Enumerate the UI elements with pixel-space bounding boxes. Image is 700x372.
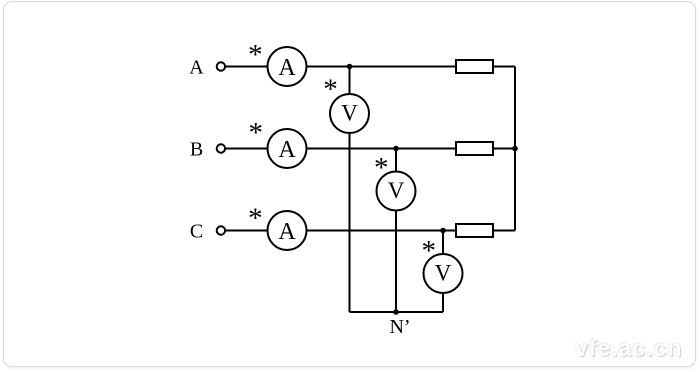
- wire junction A to voltmeter PV1: [349, 67, 351, 95]
- wire PV1 to bottom bus: [349, 133, 351, 312]
- voltmeter PV2: [377, 172, 416, 211]
- wire terminal A to ammeter PA1: [226, 66, 268, 68]
- terminal B: [217, 144, 225, 152]
- watermark vfe.ac.cn: [575, 335, 695, 362]
- svg-text:V: V: [435, 261, 452, 286]
- node junction A: [347, 64, 353, 70]
- terminal A: [217, 62, 225, 70]
- svg-text:V: V: [341, 101, 358, 126]
- wire junction C to voltmeter PV3: [442, 231, 444, 255]
- resistor R2: [456, 142, 493, 155]
- wire junction B to voltmeter PV2: [395, 149, 397, 172]
- right bus wire: [514, 67, 516, 231]
- node N': [393, 309, 399, 315]
- svg-text:*: *: [249, 117, 264, 149]
- terminal C: [217, 226, 225, 234]
- svg-text:V: V: [388, 178, 405, 203]
- wire PV2 to bottom bus: [395, 211, 397, 313]
- resistor R1: [456, 60, 493, 73]
- svg-text:B: B: [190, 138, 203, 160]
- wire PA1 to resistor R1: [307, 66, 457, 68]
- wire R1 to right bus: [493, 66, 515, 68]
- voltmeter PV3: [424, 254, 463, 293]
- wire terminal B to ammeter PA2: [226, 148, 268, 150]
- ammeter PA3: [268, 211, 307, 250]
- resistor R3: [456, 224, 493, 237]
- node junction C: [440, 228, 446, 234]
- wire R3 to right bus: [493, 230, 515, 232]
- svg-text:A: A: [278, 55, 296, 81]
- node junction B: [393, 146, 399, 152]
- bottom bus wire N': [350, 311, 444, 313]
- svg-text:A: A: [278, 219, 296, 245]
- svg-text:A: A: [189, 56, 204, 78]
- wire R2 to right bus: [493, 148, 515, 150]
- ammeter PA2: [268, 129, 307, 168]
- node right bus B: [512, 146, 518, 152]
- voltmeter PV1: [330, 94, 369, 133]
- svg-text:C: C: [190, 220, 203, 242]
- wire PA2 to resistor R2: [307, 148, 457, 150]
- wire PA3 to resistor R3: [307, 230, 457, 232]
- ammeter PA1: [268, 47, 307, 86]
- svg-text:N’: N’: [389, 316, 410, 338]
- wire terminal C to ammeter PA3: [226, 230, 268, 232]
- svg-text:*: *: [248, 202, 263, 234]
- svg-text:A: A: [278, 137, 296, 163]
- svg-text:*: *: [248, 39, 263, 71]
- wire PV3 to bottom bus: [442, 293, 444, 312]
